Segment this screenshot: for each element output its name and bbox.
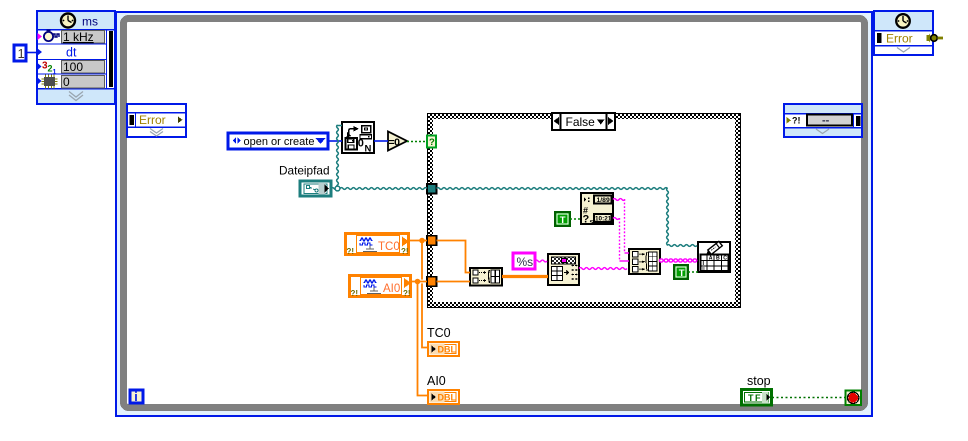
label AI0 (indicator): [427, 374, 446, 388]
output node footer chevron: [897, 48, 910, 53]
label TC0 (indicator): [427, 326, 451, 340]
wire: blue enum to Open/Create: [328, 140, 342, 142]
boolean constant T (write): [674, 265, 688, 279]
function Get Date/Time String: [581, 193, 613, 226]
input node row 4: 0 (processor): [38, 75, 105, 90]
output node clock icon: [896, 14, 910, 28]
junction: path wire: [335, 186, 340, 191]
svg-text:1/89: 1/89: [597, 197, 610, 204]
timed loop output node (Error): [874, 11, 933, 55]
indicator TC0 DBL: [428, 342, 459, 356]
right data node (?! --, inside loop): [784, 104, 862, 137]
wire: teal tunnel to write node: [437, 188, 698, 247]
while loop gray border frame: [124, 19, 865, 408]
string constant %s: [513, 253, 535, 269]
svg-text:dt: dt: [66, 46, 77, 60]
svg-text:False: False: [566, 115, 596, 129]
svg-text:i: i: [134, 390, 137, 404]
svg-text:DBL: DBL: [438, 393, 457, 403]
wire: path junction to teal tunnel: [340, 188, 427, 190]
junction: AI0 wire: [415, 279, 421, 285]
svg-text:0: 0: [63, 75, 70, 89]
svg-text:TC0: TC0: [378, 241, 400, 253]
path control (Dateipfad terminal): [300, 181, 331, 196]
svg-text:1 kHz: 1 kHz: [63, 30, 94, 44]
error out wire stub with diamond: [927, 34, 944, 43]
svg-text:C: C: [723, 256, 727, 262]
svg-text:?!: ?!: [403, 289, 411, 298]
comparison =0? triangle: [388, 132, 407, 151]
svg-text:10:21: 10:21: [595, 216, 612, 223]
svg-text:T: T: [560, 215, 566, 226]
tunnel path (teal square): [427, 184, 437, 194]
tunnel AI0 (orange square): [427, 277, 437, 287]
shared variable AI0: [350, 276, 412, 299]
svg-text:100: 100: [63, 60, 83, 74]
svg-text:?!: ?!: [401, 247, 409, 256]
wire: time string to concatenate: [613, 218, 629, 261]
svg-text:stop: stop: [747, 374, 771, 388]
input node row 3: 100: [38, 60, 105, 76]
boolean constant T (date): [555, 212, 570, 226]
enum constant 'open or create': [228, 133, 328, 149]
computer icon top right: [362, 126, 371, 133]
wire: array Build Array to spreadsheet string: [502, 275, 548, 278]
wire: AI0 tunnel to Build Array: [437, 281, 471, 283]
function Concatenate Strings: [629, 249, 660, 274]
wire: TC0 branch down to DBL indicator: [422, 241, 428, 348]
svg-text:1: 1: [18, 46, 25, 61]
wire: constant 1 to dt input: [26, 52, 37, 54]
svg-text:TC0: TC0: [427, 326, 451, 340]
wire: %s to spreadsheet string node: [535, 260, 547, 262]
tunnel TC0 (orange square): [427, 236, 437, 246]
numeric constant 1: [14, 45, 26, 61]
svg-text:ms: ms: [82, 15, 98, 29]
transfer arrow: [349, 129, 354, 135]
input node row 2: dt: [38, 46, 77, 60]
svg-text:B: B: [716, 256, 720, 262]
svg-text:0: 0: [358, 137, 364, 149]
loop iteration terminal i: [130, 390, 143, 404]
svg-text:?!: ?!: [347, 247, 355, 256]
svg-text:TF: TF: [748, 393, 762, 403]
case structure border (checkered): [427, 113, 741, 308]
svg-text:Error: Error: [886, 32, 913, 46]
wire: path control to junction: [331, 188, 337, 190]
wire: green dotted =0 to ? tunnel: [407, 141, 427, 143]
svg-text:?!: ?!: [351, 289, 359, 298]
right data node chevron: [816, 129, 829, 134]
wire: AI0 variable to tunnel: [410, 281, 427, 283]
shared variable TC0: [346, 234, 410, 257]
wire: green dotted T to write node: [688, 271, 698, 273]
timed loop input node (ms / 1 kHz / dt / 100 / 0): [37, 11, 115, 104]
wire: TC0 variable to tunnel: [408, 240, 427, 242]
svg-text:A: A: [709, 256, 713, 262]
wire: green dotted stop to loop condition: [772, 397, 845, 399]
svg-text:s: s: [590, 219, 594, 226]
svg-text:AI0: AI0: [383, 283, 400, 295]
svg-text:T: T: [679, 268, 685, 279]
left data node (Error, inside loop): [127, 104, 186, 137]
input node clock icon: [61, 14, 98, 29]
left data node chevron: [150, 129, 163, 137]
floppy icon bottom left: [346, 138, 358, 150]
function Build Array: [470, 268, 502, 286]
input node row 1: 1 kHz: [38, 30, 105, 45]
svg-text:?!: ?!: [792, 116, 801, 126]
junction: TC0 wire: [419, 238, 425, 244]
svg-text:Dateipfad: Dateipfad: [279, 164, 330, 178]
timed loop outer blue frame: [116, 12, 872, 416]
wire: AI0 branch down to DBL indicator: [418, 282, 429, 396]
wire: path junction up to Open/Create: [337, 125, 342, 188]
wire: date string to concatenate: [613, 199, 629, 253]
function Write to Text File: [698, 242, 730, 273]
input node footer chevron: [69, 92, 83, 101]
svg-text:=0: =0: [389, 136, 401, 148]
boolean control stop (TF): [742, 374, 772, 405]
svg-text:AI0: AI0: [427, 374, 446, 388]
write node pencil: [704, 241, 722, 257]
loop stop condition terminal: [846, 391, 862, 406]
wire: green dotted T to date node: [570, 218, 581, 220]
svg-text:DBL: DBL: [438, 345, 457, 355]
svg-text:--: --: [822, 115, 830, 127]
function Open/Create/Replace File: [342, 122, 374, 154]
label Dateipfad: [279, 164, 330, 178]
svg-text:≡: ≡: [702, 267, 705, 273]
wire: spreadsheet string to concatenate: [579, 268, 627, 270]
svg-text:?: ?: [583, 214, 590, 226]
case selector label 'False': [552, 113, 615, 130]
svg-text:Error: Error: [139, 113, 166, 127]
svg-text:open or create: open or create: [244, 136, 315, 148]
wire: TC0 tunnel to Build Array: [437, 241, 471, 273]
indicator AI0 DBL: [428, 390, 459, 404]
function Array To Spreadsheet String: [548, 254, 579, 285]
svg-text:N: N: [365, 143, 372, 154]
svg-text:%s: %s: [517, 255, 534, 269]
wire: blue Open/Create to =0: [374, 140, 388, 142]
wire: concatenated string to write node (ring pattern): [661, 258, 698, 263]
svg-text:?: ?: [429, 137, 435, 148]
tunnel ? (case selector input): [427, 136, 436, 149]
